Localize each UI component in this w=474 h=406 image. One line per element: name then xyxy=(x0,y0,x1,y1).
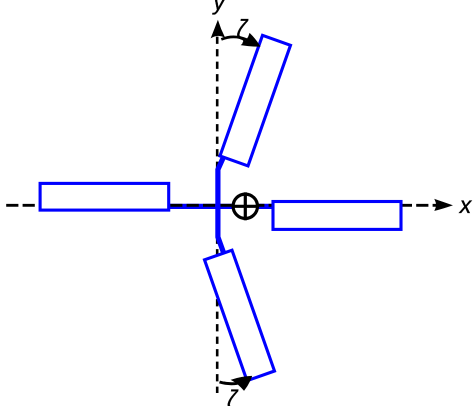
left arm rectangle xyxy=(40,183,169,210)
bottom tilted arm rectangle xyxy=(205,250,275,381)
zeta angle arc top xyxy=(221,37,247,40)
right arm rectangle xyxy=(273,202,401,230)
svg-text:ζ: ζ xyxy=(237,15,250,45)
zeta arrowhead bottom xyxy=(232,376,252,390)
x-axis dashed line xyxy=(6,204,437,207)
zeta angle arc bottom xyxy=(220,382,238,384)
feed line to bottom arm xyxy=(218,205,224,254)
y-axis dashed line xyxy=(216,37,219,393)
origin symbol cross horizontal xyxy=(232,205,259,208)
feed line horizontal xyxy=(167,204,274,209)
feed line to top arm xyxy=(218,157,224,208)
svg-text:ζ: ζ xyxy=(227,385,239,406)
y-axis arrowhead xyxy=(211,21,224,38)
zeta arrowhead top xyxy=(242,34,260,47)
origin feed symbol circle xyxy=(233,194,257,218)
top tilted arm rectangle xyxy=(220,35,291,166)
svg-text:x: x xyxy=(459,192,473,218)
origin symbol cross vertical xyxy=(244,192,247,220)
x-axis arrowhead xyxy=(435,199,452,210)
svg-text:y: y xyxy=(212,0,227,15)
